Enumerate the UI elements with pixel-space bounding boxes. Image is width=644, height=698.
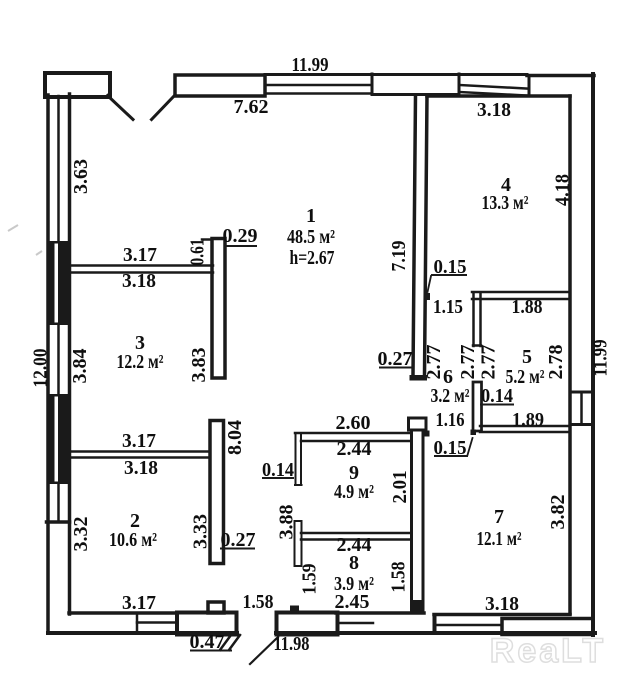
svg-text:1.58: 1.58 (388, 562, 410, 593)
svg-text:1.58: 1.58 (243, 591, 274, 613)
svg-text:48.5 м²: 48.5 м² (287, 226, 335, 248)
svg-text:8: 8 (349, 552, 359, 574)
svg-text:5: 5 (522, 346, 532, 368)
svg-text:7: 7 (494, 506, 504, 528)
svg-text:2.60: 2.60 (336, 412, 371, 434)
svg-text:1: 1 (306, 205, 316, 227)
svg-text:2.45: 2.45 (335, 591, 370, 613)
svg-text:11.99: 11.99 (292, 54, 329, 76)
svg-text:1.89: 1.89 (512, 409, 544, 431)
svg-text:12.1 м²: 12.1 м² (477, 528, 522, 550)
svg-text:2.77: 2.77 (457, 345, 479, 380)
svg-text:3.83: 3.83 (188, 348, 210, 383)
svg-text:3.32: 3.32 (70, 517, 92, 552)
svg-text:12.2 м²: 12.2 м² (117, 351, 164, 373)
svg-text:2.01: 2.01 (389, 471, 411, 504)
svg-text:0.27: 0.27 (378, 348, 413, 370)
svg-text:3.63: 3.63 (70, 159, 92, 194)
svg-text:7.62: 7.62 (234, 96, 269, 118)
svg-text:2.77: 2.77 (478, 345, 500, 380)
svg-text:10.6 м²: 10.6 м² (109, 529, 157, 551)
svg-text:1.16: 1.16 (436, 409, 465, 431)
svg-text:3.17: 3.17 (122, 592, 156, 614)
svg-text:8.04: 8.04 (224, 420, 246, 455)
svg-text:2.78: 2.78 (545, 345, 567, 380)
svg-text:3.18: 3.18 (485, 593, 519, 615)
svg-text:2.77: 2.77 (423, 345, 445, 380)
svg-text:3.18: 3.18 (477, 99, 511, 121)
svg-text:4.9 м²: 4.9 м² (334, 481, 374, 503)
svg-text:3.2 м²: 3.2 м² (431, 385, 470, 407)
svg-text:0.27: 0.27 (221, 529, 256, 551)
svg-text:h=2.67: h=2.67 (290, 247, 335, 269)
svg-text:2.44: 2.44 (337, 438, 372, 460)
svg-text:ReaLT: ReaLT (490, 632, 606, 670)
svg-text:11.98: 11.98 (274, 633, 310, 655)
svg-text:0.14: 0.14 (481, 385, 513, 407)
svg-text:3.84: 3.84 (69, 349, 91, 384)
svg-text:3.18: 3.18 (124, 457, 158, 479)
svg-text:3.17: 3.17 (123, 244, 157, 266)
svg-text:0.15: 0.15 (434, 437, 467, 459)
svg-text:1.15: 1.15 (433, 296, 463, 318)
svg-text:0.14: 0.14 (262, 459, 294, 481)
svg-text:3.18: 3.18 (122, 270, 156, 292)
svg-text:3.82: 3.82 (547, 495, 569, 530)
svg-text:0.15: 0.15 (434, 256, 467, 278)
svg-text:4.18: 4.18 (552, 174, 574, 206)
svg-text:3.88: 3.88 (276, 505, 298, 540)
svg-text:0.47: 0.47 (190, 631, 225, 653)
svg-text:1.88: 1.88 (512, 296, 543, 318)
svg-text:0.29: 0.29 (223, 225, 258, 247)
svg-text:11.99: 11.99 (590, 340, 612, 377)
svg-text:3.17: 3.17 (122, 430, 156, 452)
svg-text:7.19: 7.19 (388, 241, 410, 272)
svg-text:0.61: 0.61 (187, 239, 209, 266)
svg-text:13.3 м²: 13.3 м² (482, 192, 529, 214)
svg-text:12.00: 12.00 (30, 349, 52, 388)
svg-text:1.59: 1.59 (299, 564, 321, 595)
svg-text:3.33: 3.33 (190, 514, 212, 549)
